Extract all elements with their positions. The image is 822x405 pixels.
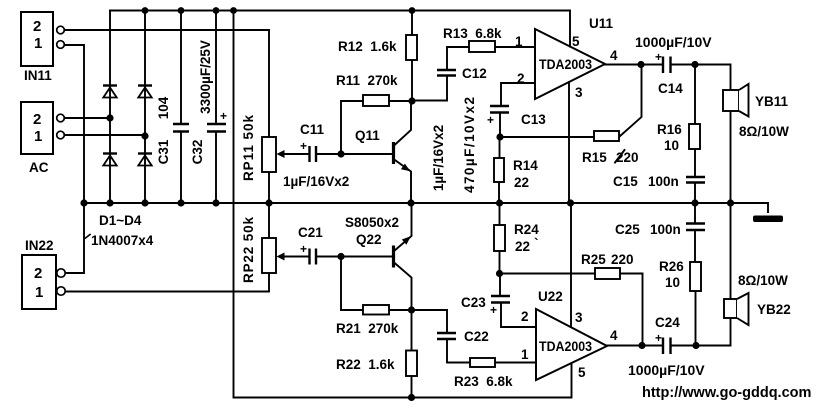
svg-text:220: 220: [611, 252, 634, 267]
svg-text:4: 4: [610, 48, 618, 63]
svg-text:2: 2: [34, 265, 42, 282]
svg-text:C12: C12: [462, 66, 487, 81]
svg-text:1: 1: [34, 35, 42, 52]
svg-text:C32: C32: [190, 140, 205, 165]
svg-text:1µF/16Vx2: 1µF/16Vx2: [431, 125, 446, 191]
svg-text:2: 2: [521, 309, 529, 324]
svg-text:1: 1: [35, 284, 43, 301]
svg-text:YB11: YB11: [755, 94, 789, 109]
svg-text:YB22: YB22: [757, 302, 791, 317]
svg-text:TDA2003: TDA2003: [539, 56, 592, 72]
svg-text:R14: R14: [513, 158, 538, 173]
svg-text:http://www.go-gddq.com: http://www.go-gddq.com: [642, 385, 811, 401]
svg-text:104: 104: [156, 96, 171, 119]
svg-text:R23 6.8k: R23 6.8k: [454, 374, 513, 389]
svg-text:C15: C15: [613, 174, 638, 189]
svg-text:U22: U22: [538, 289, 563, 304]
svg-text:C31: C31: [156, 139, 171, 164]
svg-text:D1~D4: D1~D4: [99, 213, 142, 228]
svg-text:+: +: [487, 113, 494, 127]
svg-text:R16: R16: [657, 122, 682, 137]
svg-text:8Ω/10W: 8Ω/10W: [739, 124, 789, 139]
svg-text:C23: C23: [461, 295, 486, 310]
svg-text:R22 1.6k: R22 1.6k: [336, 357, 395, 372]
svg-text:R11 270k: R11 270k: [336, 73, 398, 88]
svg-text:220: 220: [616, 150, 639, 165]
svg-text:100n: 100n: [650, 222, 681, 237]
svg-text:R24: R24: [514, 222, 539, 237]
svg-text:+: +: [655, 50, 662, 64]
svg-text:+: +: [655, 331, 662, 345]
svg-text:+: +: [300, 139, 307, 153]
svg-text:3: 3: [575, 85, 583, 100]
svg-text:R21 270k: R21 270k: [336, 321, 399, 336]
svg-text:C21: C21: [298, 225, 323, 240]
svg-text:8Ω/10W: 8Ω/10W: [738, 273, 788, 288]
svg-text:C11: C11: [300, 122, 325, 137]
svg-text:IN22: IN22: [25, 238, 54, 253]
svg-text:R26: R26: [659, 259, 684, 274]
svg-text:Q11: Q11: [355, 128, 380, 143]
svg-text:5: 5: [578, 365, 586, 380]
svg-text:100n: 100n: [648, 174, 679, 189]
svg-text:+: +: [300, 242, 307, 256]
svg-text:IN11: IN11: [24, 68, 52, 83]
svg-text:1: 1: [515, 34, 523, 49]
svg-text:C22: C22: [464, 329, 489, 344]
svg-text:`: `: [534, 236, 539, 251]
svg-text:R13 6.8k: R13 6.8k: [443, 26, 502, 41]
svg-text:470µF/10Vx2: 470µF/10Vx2: [462, 97, 477, 193]
svg-text:2: 2: [33, 111, 41, 128]
svg-text:2: 2: [33, 18, 41, 35]
svg-text:2: 2: [517, 71, 525, 86]
svg-text:AC: AC: [29, 160, 49, 175]
svg-text:U11: U11: [589, 16, 614, 31]
svg-text:+: +: [220, 109, 227, 123]
svg-text:+: +: [490, 303, 497, 317]
svg-text:RP22 50k: RP22 50k: [241, 217, 256, 283]
svg-text:1: 1: [521, 347, 529, 362]
svg-text:5: 5: [572, 34, 580, 49]
svg-text:22: 22: [514, 175, 529, 190]
svg-text:C13: C13: [521, 112, 546, 127]
svg-text:R25: R25: [581, 252, 606, 267]
svg-text:R12 1.6k: R12 1.6k: [338, 39, 397, 54]
svg-text:Q22: Q22: [356, 232, 382, 247]
svg-text:1000µF/10V: 1000µF/10V: [628, 362, 705, 378]
svg-text:TDA2003: TDA2003: [539, 338, 592, 354]
svg-text:1: 1: [34, 128, 42, 145]
svg-text:1000µF/10V: 1000µF/10V: [635, 34, 712, 50]
svg-text:4: 4: [610, 328, 618, 343]
svg-text:R15: R15: [582, 150, 607, 165]
svg-text:3300µF/25V: 3300µF/25V: [198, 40, 213, 114]
svg-text:RP11 50k: RP11 50k: [241, 115, 256, 181]
svg-text:3: 3: [575, 310, 583, 325]
svg-text:1N4007x4: 1N4007x4: [91, 233, 154, 248]
svg-text:S8050x2: S8050x2: [345, 215, 399, 230]
svg-text:10: 10: [665, 275, 680, 290]
svg-text:C14: C14: [658, 81, 683, 96]
svg-text:C24: C24: [655, 315, 680, 330]
svg-text:1µF/16Vx2: 1µF/16Vx2: [283, 174, 349, 189]
svg-text:10: 10: [664, 138, 679, 153]
svg-text:22: 22: [515, 239, 530, 254]
svg-text:C25: C25: [615, 222, 640, 237]
